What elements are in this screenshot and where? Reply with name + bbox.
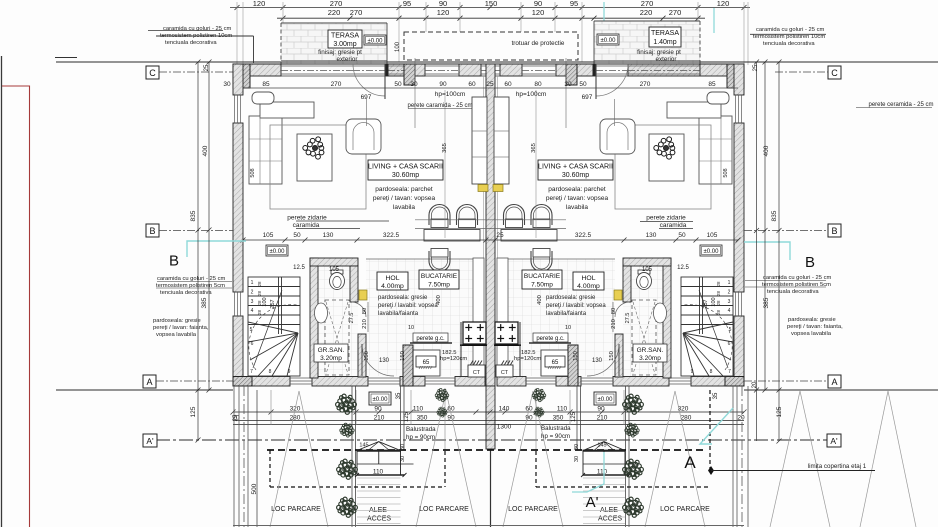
svg-text:100: 100 <box>262 297 268 306</box>
bottom extension lines <box>271 388 624 450</box>
right margin perete caramida note <box>856 102 934 108</box>
left unit CT boiler box <box>468 365 485 377</box>
svg-text:90: 90 <box>439 81 447 88</box>
parking stall lines 5 <box>770 391 830 527</box>
left terrace finish note <box>318 49 362 63</box>
svg-text:LIVING + CASA SCARII: LIVING + CASA SCARII <box>538 164 613 171</box>
right 182.5 hp note <box>514 350 541 362</box>
left perete zidarie note <box>287 215 389 230</box>
svg-text:400: 400 <box>537 295 543 305</box>
right unit toilet <box>637 270 652 290</box>
svg-text:50: 50 <box>579 81 587 88</box>
svg-text:TERASA: TERASA <box>331 33 359 40</box>
svg-text:85: 85 <box>262 81 270 88</box>
svg-text:ACCES: ACCES <box>598 516 622 523</box>
svg-text:30: 30 <box>410 81 418 88</box>
svg-text:140: 140 <box>499 406 510 413</box>
svg-text:65: 65 <box>423 360 430 366</box>
svg-text:90: 90 <box>374 406 382 413</box>
svg-text:trotuar de protectie: trotuar de protectie <box>512 40 565 47</box>
svg-text:hp = 90cm: hp = 90cm <box>406 434 435 441</box>
right unit bathroom north wall <box>623 258 671 266</box>
svg-text:80: 80 <box>534 81 542 88</box>
bottom dim labels row2 <box>232 415 745 422</box>
svg-text:50: 50 <box>678 232 686 239</box>
svg-text:termosistem polistiren 10cm: termosistem polistiren 10cm <box>753 34 825 40</box>
svg-text:A: A <box>146 377 152 387</box>
left unit toilet <box>330 270 345 290</box>
svg-text:400: 400 <box>763 145 770 156</box>
left GR.SAN label box <box>314 344 348 362</box>
right unit dining extension line a <box>490 219 566 221</box>
svg-text:350: 350 <box>553 415 564 422</box>
right unit kitchen stove <box>495 322 518 344</box>
svg-text:25: 25 <box>486 81 494 88</box>
mid dimension line 322.5 <box>241 238 741 243</box>
left unit counter side edge <box>460 322 462 377</box>
right unit bathroom dashed diagonals <box>633 302 655 374</box>
right balustrada note <box>541 425 571 440</box>
svg-text:105: 105 <box>329 267 340 273</box>
svg-text:835: 835 <box>190 210 197 221</box>
right HOL label box <box>573 272 604 290</box>
svg-text:150: 150 <box>364 351 370 361</box>
left unit entry door arc <box>362 344 394 376</box>
svg-text:110: 110 <box>597 468 608 475</box>
svg-text:150: 150 <box>609 351 615 361</box>
left unit bathroom west wall <box>310 258 318 378</box>
svg-text:270: 270 <box>330 0 343 8</box>
parking stall lines 2 <box>416 391 476 527</box>
top dim labels row2 <box>328 8 682 17</box>
left unit tile floor hol+kitchen <box>366 259 484 376</box>
svg-text:C: C <box>149 68 156 78</box>
south wall pier porch right <box>568 345 578 386</box>
svg-text:GR.SAN.: GR.SAN. <box>318 347 345 354</box>
svg-text:caramida cu goluri - 25 cm: caramida cu goluri - 25 cm <box>157 276 225 282</box>
left unit counter hatch mark <box>419 366 432 369</box>
svg-text:4.00mp: 4.00mp <box>381 283 404 290</box>
svg-text:8: 8 <box>269 369 272 375</box>
right dim chain outer <box>777 60 782 444</box>
left ALEE ACCES label <box>367 507 391 523</box>
grid bubble C right <box>775 66 841 79</box>
left unit hol south wall stub <box>358 334 366 377</box>
svg-text:28: 28 <box>257 291 262 297</box>
porch 30 dims right <box>574 444 580 462</box>
svg-text:1300: 1300 <box>497 424 512 431</box>
svg-text:60: 60 <box>504 81 512 88</box>
parking stall lines 3 <box>503 391 563 527</box>
svg-text:A: A <box>831 377 837 387</box>
sheet left border line <box>1 56 3 527</box>
cyan section cut B right <box>744 242 790 260</box>
svg-text:±0.00: ±0.00 <box>373 397 389 403</box>
left unit stove burner crosses <box>465 324 483 342</box>
right unit 65 label box <box>545 356 565 367</box>
svg-text:30.60mp: 30.60mp <box>562 172 589 179</box>
right mid level mark <box>700 245 722 256</box>
left unit rug outline <box>270 125 366 209</box>
LOC PARCARE labels <box>271 506 710 513</box>
right alee paving <box>583 478 625 524</box>
porch pier right redraw <box>568 345 578 386</box>
alee left edge lines <box>352 386 404 527</box>
svg-text:697: 697 <box>582 94 593 101</box>
bottom dim line row3 <box>233 424 744 426</box>
svg-text:ACCES: ACCES <box>367 516 391 523</box>
left living finish note <box>373 186 436 211</box>
svg-text:350: 350 <box>417 415 428 422</box>
svg-text:145: 145 <box>597 443 606 449</box>
section line Aprime <box>156 439 841 441</box>
svg-text:±0.00: ±0.00 <box>368 39 384 45</box>
right GR.SAN label box <box>633 344 667 362</box>
svg-text:caramida: caramida <box>660 222 687 229</box>
left unit dining chair bottom <box>429 249 450 272</box>
right unit bathroom tile floor <box>623 266 663 376</box>
svg-text:257: 257 <box>703 299 709 308</box>
grid bubble C left <box>146 66 233 79</box>
left 500 dim chain <box>251 390 258 527</box>
right kitchen finish note <box>546 295 606 317</box>
tree right 4 <box>623 497 644 517</box>
svg-text:80: 80 <box>362 308 368 314</box>
left unit bathroom tile floor <box>318 266 358 376</box>
svg-text:125: 125 <box>190 406 197 417</box>
svg-text:90: 90 <box>597 406 605 413</box>
left rotated dims 80 210 <box>362 308 368 329</box>
right unit stair 28 tread labels <box>716 281 721 315</box>
svg-text:120: 120 <box>532 8 545 17</box>
cyan arrow at A <box>700 408 733 444</box>
svg-text:3.00mp: 3.00mp <box>333 41 356 48</box>
svg-text:322.5: 322.5 <box>383 232 400 239</box>
svg-text:LOC PARCARE: LOC PARCARE <box>419 506 469 513</box>
svg-text:6: 6 <box>728 341 731 347</box>
left unit tv cabinet <box>472 97 487 184</box>
bottom dim line row2 <box>233 420 744 422</box>
tree left 4 <box>337 497 358 517</box>
top-left margin note <box>148 26 254 63</box>
svg-text:125: 125 <box>571 411 577 422</box>
left BUCATARIE label box <box>419 270 459 289</box>
right unit 80-210 dim line <box>612 302 614 332</box>
left unit tv cabinet shelves <box>472 131 487 157</box>
svg-text:30: 30 <box>564 81 572 88</box>
svg-text:120: 120 <box>437 8 450 17</box>
right boundary verticals <box>733 386 748 527</box>
svg-text:hp=120cm: hp=120cm <box>440 356 467 362</box>
svg-text:365: 365 <box>442 143 448 153</box>
right ALEE ACCES label <box>598 507 622 523</box>
right unit sofa <box>667 92 732 184</box>
left unit kitchen counter heavy edge <box>460 344 487 346</box>
left unit counter 65 block <box>412 350 440 376</box>
svg-text:hp=100cm: hp=100cm <box>435 91 466 98</box>
dim extension vertical x415 <box>414 58 416 128</box>
svg-text:210: 210 <box>611 319 617 329</box>
svg-text:400: 400 <box>202 145 209 156</box>
svg-text:12.5: 12.5 <box>677 265 689 271</box>
svg-text:20: 20 <box>737 415 745 422</box>
left unit kitchen sink hatch <box>468 361 483 367</box>
left terrace tiled floor <box>281 23 387 64</box>
left terrace outline <box>281 23 387 64</box>
svg-text:4: 4 <box>251 308 254 314</box>
parking stall lines 6 <box>860 391 916 527</box>
svg-text:10: 10 <box>408 325 414 331</box>
bush center-right 2 <box>534 407 544 417</box>
svg-text:hp=100cm: hp=100cm <box>516 91 547 98</box>
svg-text:697: 697 <box>361 94 372 101</box>
svg-text:A: A <box>684 453 696 472</box>
svg-text:3.20mp: 3.20mp <box>639 355 661 362</box>
copertina dashed top line <box>267 449 707 451</box>
left terrace level mark +0.00 <box>364 35 386 45</box>
svg-text:1: 1 <box>728 280 731 286</box>
right unit kitchen counter at party wall <box>497 258 508 376</box>
right unit counter hatch mark <box>548 366 561 369</box>
left unit floor split line <box>366 258 484 260</box>
svg-text:B: B <box>831 226 837 236</box>
grid bubble Aprime right <box>827 434 841 447</box>
right chain labels <box>763 145 783 417</box>
svg-text:perete g.c.: perete g.c. <box>416 336 445 342</box>
svg-text:C: C <box>831 68 838 78</box>
copertina dashed bottom right <box>536 486 710 488</box>
right entry canopy and steps <box>581 442 638 477</box>
svg-text:tenciuala decorativa: tenciuala decorativa <box>160 290 212 296</box>
svg-text:lavabila: lavabila <box>393 204 415 211</box>
svg-text:7: 7 <box>250 369 253 375</box>
svg-text:100: 100 <box>395 41 401 52</box>
left unit 80-210 dim line <box>367 302 369 332</box>
svg-text:8: 8 <box>710 369 713 375</box>
svg-text:BUCATARIE: BUCATARIE <box>421 273 458 280</box>
bathroom dims small <box>293 265 689 273</box>
mid dim labels <box>263 232 718 239</box>
svg-text:10: 10 <box>565 325 571 331</box>
svg-text:CT: CT <box>501 370 509 376</box>
svg-text:25: 25 <box>496 232 504 239</box>
svg-text:pardoseala: gresie: pardoseala: gresie <box>546 295 596 301</box>
right unit CT boiler box <box>496 365 513 377</box>
right unit yellow socket marker <box>493 185 503 192</box>
right unit floor split line <box>497 258 615 260</box>
left mid level mark <box>266 245 288 256</box>
north wall exterior face line <box>233 63 744 65</box>
right unit counter side edge <box>519 322 521 377</box>
left unit dining chairs top <box>429 205 450 228</box>
left perete g.c. label <box>413 333 448 342</box>
svg-text:280: 280 <box>681 415 692 422</box>
right unit 365 dim extension line <box>535 90 537 238</box>
top dim extension lines <box>237 2 748 65</box>
grid bubble B right <box>744 224 841 237</box>
svg-text:2: 2 <box>728 290 731 296</box>
right unit coffee table <box>649 134 684 181</box>
cyan section tick top left-center <box>603 2 605 22</box>
left unit sofa <box>249 92 314 184</box>
left unit bathroom east wall <box>350 266 358 302</box>
svg-text:130: 130 <box>646 232 657 239</box>
svg-text:90: 90 <box>534 0 542 8</box>
TERASA 3.00mp label box <box>328 30 362 48</box>
svg-text:85: 85 <box>708 81 716 88</box>
svg-text:B: B <box>805 254 815 271</box>
left boundary verticals <box>234 386 248 527</box>
svg-text:finisaj: gresie pt: finisaj: gresie pt <box>318 49 362 56</box>
red plot boundary polyline <box>2 86 30 527</box>
svg-text:28: 28 <box>716 281 721 287</box>
bottom dim ticks <box>231 410 747 415</box>
svg-text:30: 30 <box>223 81 231 88</box>
svg-text:270: 270 <box>331 81 342 88</box>
svg-text:pereţi / tavan: vopsea: pereţi / tavan: vopsea <box>373 195 436 202</box>
right porch level mark <box>594 392 616 405</box>
svg-text:pereţi / lavabil: vopsea: pereţi / lavabil: vopsea <box>546 303 606 309</box>
left unit armchair seat <box>353 123 374 151</box>
tree right 2 <box>625 423 639 437</box>
svg-text:30: 30 <box>400 456 406 462</box>
svg-text:BUCATARIE: BUCATARIE <box>524 273 561 280</box>
south wall corner pier left <box>233 377 252 387</box>
south wall pier porch left <box>403 345 413 386</box>
svg-text:28: 28 <box>716 310 721 316</box>
svg-text:vopsea lavabila: vopsea lavabila <box>791 331 832 337</box>
left unit stair step numbers <box>250 280 291 375</box>
right unit armchair seat <box>607 123 628 151</box>
bottom dim labels row1 <box>290 406 689 413</box>
svg-text:5: 5 <box>250 327 253 333</box>
svg-text:270: 270 <box>641 0 654 8</box>
top dim labels row1 <box>253 0 730 8</box>
svg-text:27.5: 27.5 <box>625 313 631 324</box>
svg-text:385: 385 <box>201 297 208 308</box>
svg-text:130: 130 <box>592 358 603 364</box>
svg-text:pardoseala: gresie: pardoseala: gresie <box>788 317 836 323</box>
svg-text:Balustrada: Balustrada <box>406 426 436 433</box>
left margin floor note <box>153 318 209 338</box>
left unit plant on table <box>303 137 324 159</box>
tree right 1 <box>623 394 644 414</box>
svg-text:110: 110 <box>413 406 424 413</box>
left porch level mark <box>369 392 391 405</box>
svg-text:130: 130 <box>379 358 390 364</box>
left chain labels <box>190 145 209 417</box>
svg-text:±0.00: ±0.00 <box>601 38 617 44</box>
svg-text:finisaj: gresie pt: finisaj: gresie pt <box>637 49 681 56</box>
svg-text:220: 220 <box>328 8 341 17</box>
left unit yellow socket marker <box>478 185 488 192</box>
svg-text:257: 257 <box>270 299 276 308</box>
svg-text:LOC PARCARE: LOC PARCARE <box>271 506 321 513</box>
svg-text:caramida cu goluri - 25 cm: caramida cu goluri - 25 cm <box>756 27 824 33</box>
svg-text:30: 30 <box>574 456 580 462</box>
top-right margin note <box>750 27 826 47</box>
grid bubble Aprime left <box>143 434 157 447</box>
alee right edge lines <box>577 386 629 527</box>
left HOL label box <box>377 272 408 290</box>
svg-text:A': A' <box>830 436 838 446</box>
right unit tv cabinet shelves <box>494 131 509 157</box>
svg-text:80: 80 <box>611 308 617 314</box>
svg-text:400: 400 <box>436 295 442 305</box>
left unit bathroom door arc <box>352 302 366 317</box>
svg-text:7.50mp: 7.50mp <box>531 282 553 289</box>
svg-text:perete zidarie: perete zidarie <box>646 215 686 222</box>
right unit perete g.c. partition line <box>529 342 571 344</box>
north wall window glazing lines <box>281 66 700 74</box>
left entry canopy and steps <box>355 442 414 477</box>
svg-text:95: 95 <box>403 0 411 8</box>
right terrace level mark +0.00 <box>597 34 619 45</box>
svg-text:28: 28 <box>257 281 262 287</box>
right unit hol south wall stub <box>615 334 623 377</box>
right perete g.c. label <box>533 333 568 342</box>
svg-text:270: 270 <box>640 81 651 88</box>
left unit terrace door arc <box>353 64 385 96</box>
svg-text:270: 270 <box>669 8 682 17</box>
svg-text:12.5: 12.5 <box>293 265 305 271</box>
svg-text:508: 508 <box>723 168 729 177</box>
north wall corner pier left <box>233 64 250 88</box>
svg-text:±0.00: ±0.00 <box>598 397 614 403</box>
svg-text:150: 150 <box>573 351 579 361</box>
left unit bathroom sink <box>315 303 328 323</box>
svg-text:pardoseala: parchet: pardoseala: parchet <box>375 186 433 193</box>
tree left 3 <box>337 459 358 479</box>
svg-text:120: 120 <box>717 0 730 8</box>
bush center-right 1 <box>532 389 546 402</box>
left unit 65 label box <box>416 356 436 367</box>
right unit terrace door arc <box>596 64 628 96</box>
svg-text:3.20mp: 3.20mp <box>320 355 342 362</box>
right terrace door jamb <box>593 64 597 76</box>
svg-text:Balustrada: Balustrada <box>541 425 571 432</box>
svg-text:caramida cu goluri - 25 cm: caramida cu goluri - 25 cm <box>763 275 831 281</box>
right unit yellow switch marker <box>614 290 622 300</box>
svg-text:145: 145 <box>359 443 368 449</box>
right unit bathroom sink <box>654 303 667 323</box>
svg-text:120: 120 <box>253 0 266 8</box>
grid bubble A left <box>143 375 233 388</box>
svg-text:105: 105 <box>707 232 718 239</box>
svg-text:508: 508 <box>250 168 256 177</box>
svg-text:HOL: HOL <box>582 275 596 282</box>
left unit kitchen counter at party wall <box>473 258 484 376</box>
svg-text:lavabila/faianta: lavabila/faianta <box>546 311 587 317</box>
svg-text:tenciuala decorativa: tenciuala decorativa <box>767 289 819 295</box>
left unit armchair <box>346 119 381 154</box>
left dim chain inner <box>207 60 212 393</box>
svg-text:LIVING + CASA SCARII: LIVING + CASA SCARII <box>368 164 443 171</box>
right unit terrace door leaf <box>595 64 597 99</box>
bush center-left 1 <box>435 389 449 402</box>
right margin floor note <box>787 317 843 337</box>
left terrace door jamb <box>385 64 389 76</box>
svg-text:385: 385 <box>763 297 770 308</box>
svg-text:65: 65 <box>552 360 559 366</box>
svg-text:3: 3 <box>251 299 254 305</box>
svg-text:500: 500 <box>251 483 258 494</box>
svg-text:2: 2 <box>251 290 254 296</box>
svg-text:105: 105 <box>263 232 274 239</box>
svg-text:210: 210 <box>362 319 368 329</box>
svg-text:pardoseala: gresie: pardoseala: gresie <box>153 318 201 324</box>
right unit dining extension line b <box>490 228 566 230</box>
